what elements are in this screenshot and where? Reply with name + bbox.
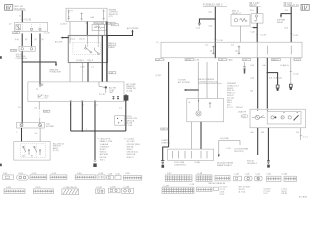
svg-text:C-42: C-42 (255, 174, 260, 176)
wire left rail down (21, 62, 23, 123)
svg-text:C-00: C-00 (196, 28, 200, 30)
svg-text:* 1 : ACD-2P GL: * 1 : ACD-2P GL (97, 138, 111, 141)
svg-text:C-105: C-105 (13, 32, 18, 34)
svg-text:C-105: C-105 (282, 174, 288, 176)
svg-text:(21-2): (21-2) (70, 39, 75, 41)
svg-text:C-60: C-60 (44, 111, 48, 113)
row2 small box C (214, 187, 219, 190)
wide connector box bottom (168, 149, 214, 167)
connector C-32 view (97, 173, 105, 179)
svg-text:20-3: 20-3 (284, 27, 288, 29)
row2 connector wide multi-pin A (162, 185, 194, 193)
wire branch 1 (15, 33, 22, 46)
fusible link box (66, 8, 107, 21)
svg-text:CONTROL-B: CONTROL-B (16, 58, 28, 60)
page edge mark left (0, 56, 2, 59)
svg-text:(5): (5) (25, 39, 28, 41)
connector labels under junction box (155, 58, 301, 61)
legend text column A (97, 138, 113, 162)
legend bottom col3 (263, 188, 271, 195)
svg-text:1 C-2: 1 C-2 (294, 59, 299, 61)
svg-text:1 C-32: 1 C-32 (293, 73, 299, 75)
svg-text:2-B: 2-B (261, 132, 265, 134)
svg-text:B7: B7 (31, 155, 33, 157)
condenser fan header (284, 3, 300, 7)
svg-text:AU2 W2B: AU2 W2B (100, 153, 109, 156)
svg-text:4-B: 4-B (269, 77, 273, 79)
svg-text:F7: F7 (71, 10, 73, 12)
svg-text:RELAY: RELAY (277, 21, 284, 24)
page edge mark left low (0, 164, 2, 167)
wire condenser fan down (284, 7, 298, 42)
connector C-39 view wide (208, 176, 230, 185)
svg-text:UNIT: UNIT (109, 92, 114, 94)
svg-text:B2: B2 (22, 155, 24, 157)
svg-text:(2): (2) (34, 39, 37, 41)
ECM box (28, 82, 124, 102)
row2 connector B-04 (96, 187, 105, 193)
svg-text:10A: 10A (90, 16, 94, 19)
note text mid (107, 43, 117, 49)
small connector box lower center (115, 116, 138, 127)
wire sensor 2 rail (290, 58, 299, 84)
wire below dedicated fuse (250, 23, 266, 42)
svg-text:(1-A(2)-1): (1-A(2)-1) (280, 64, 289, 67)
legend bottom col1 (220, 187, 228, 196)
resistor box mid (92, 24, 107, 30)
label under noise filter (16, 54, 28, 60)
svg-text:PANEL 7-COM: PANEL 7-COM (100, 140, 113, 143)
wires below ECM (18, 101, 127, 160)
row2 connector B-03 hatched (62, 187, 79, 195)
wire left dark rail (156, 62, 169, 147)
wires from relay box to ECM (70, 22, 116, 82)
magnet clutch relay box (231, 11, 250, 43)
svg-text:1 C-7: 1 C-7 (303, 137, 308, 139)
svg-text:1 A(2): 1 A(2) (227, 58, 232, 61)
svg-text:C-36: C-36 (125, 173, 130, 175)
svg-text:(C-35) 7: (C-35) 7 (60, 24, 67, 26)
wires into switch box (16, 128, 40, 142)
thermo sensor 2 (289, 84, 292, 90)
svg-text:1 C-30: 1 C-30 (217, 40, 223, 42)
svg-text:1-9: 1-9 (9, 23, 12, 25)
svg-text:4 C-32: 4 C-32 (260, 34, 266, 36)
pigtail component left (243, 62, 245, 74)
svg-text:4 C-30: 4 C-30 (24, 20, 32, 22)
svg-text:C-42: C-42 (250, 77, 254, 79)
svg-text:SYSTEM: SYSTEM (46, 126, 54, 128)
connector row right small 3 (255, 174, 263, 181)
svg-text:C-23: C-23 (190, 184, 195, 186)
svg-text:(2): (2) (235, 51, 238, 53)
row2 connector B-06 (122, 186, 134, 193)
bus under ECM (71, 130, 126, 132)
svg-text:FOR ACTIVE: FOR ACTIVE (50, 71, 62, 74)
wire fuse3 down double (99, 24, 105, 35)
svg-text:(21-08)-4: (21-08)-4 (76, 60, 84, 62)
connector C-30 view (75, 173, 95, 179)
svg-text:1 C-35: 1 C-35 (293, 35, 299, 37)
svg-text:21: 21 (36, 89, 38, 91)
wires below pressure box (250, 128, 307, 161)
wire fuse1 down (69, 22, 71, 36)
cooling fan bracket (217, 138, 249, 167)
svg-text:C-111: C-111 (11, 50, 16, 52)
svg-text:(2-4 B): (2-4 B) (126, 90, 132, 92)
label fusible link 1 (14, 6, 26, 10)
arrow to A/C system left (55, 37, 69, 44)
junction block box wide (156, 42, 302, 58)
svg-text:M: M (189, 102, 191, 104)
refrigerant label left of pressure box (236, 107, 248, 118)
svg-text:1: 1 (168, 129, 169, 131)
svg-text:C-40: C-40 (161, 129, 165, 131)
svg-text:FUSIBLE LINK 2: FUSIBLE LINK 2 (203, 3, 223, 7)
connector C-22 view (50, 173, 67, 179)
svg-text:C-40: C-40 (251, 32, 255, 34)
ground condenser (247, 161, 270, 168)
svg-text:4 72L: 4 72L (220, 194, 225, 196)
connector row C-105 (13, 32, 50, 35)
junction solid block on ECM right (124, 94, 129, 100)
wire bus to heater (22, 51, 61, 73)
wire branch 2 (25, 33, 32, 46)
wires compressor to connector (191, 122, 201, 149)
label C-38 mid (111, 24, 118, 26)
svg-text:MOMENT: MOMENT (107, 47, 116, 49)
connector C-05 view (17, 173, 29, 180)
wire dedicated fuse down (250, 7, 258, 14)
dedicated fuse box (251, 14, 263, 24)
relay box (A/C control relay) (9, 22, 48, 31)
connector C-36 view (123, 173, 141, 180)
svg-text:24-2: 24-2 (209, 12, 213, 14)
A/C relay big box (68, 36, 107, 63)
svg-text:(2-4B): (2-4B) (195, 162, 201, 164)
svg-text:*5 : 5-2 (A-T: *5 : 5-2 (A-T (124, 138, 135, 141)
label C-60 midleft (43, 110, 50, 113)
ECM inner dark components (112, 96, 119, 99)
svg-text:A/C-SYS: A/C-SYS (55, 41, 63, 44)
svg-text:5-4: 5-4 (35, 133, 38, 135)
svg-text:4 A(2)-1: 4 A(2)-1 (272, 58, 279, 61)
svg-text:C-36: C-36 (80, 67, 84, 69)
svg-text:C-38: C-38 (195, 59, 199, 61)
ECM terminal for wire (36, 84, 44, 91)
svg-text:C-41: C-41 (250, 65, 254, 67)
svg-text:4-A: 4-A (262, 64, 266, 67)
svg-text:4-B: 4-B (250, 132, 254, 134)
capacitor branch (196, 19, 216, 30)
svg-text:AC-7B1U4: AC-7B1U4 (299, 195, 307, 198)
svg-text:2-7U: 2-7U (263, 193, 268, 195)
svg-text:2 4: 2 4 (91, 67, 94, 69)
compressor box (187, 98, 224, 121)
wire pressure rail 1 (250, 58, 266, 109)
svg-text:C-02: C-02 (242, 116, 246, 118)
A/C switch box (14, 142, 50, 161)
svg-text:2-C 27: 2-C 27 (227, 107, 233, 109)
legend text column B (124, 138, 140, 159)
svg-text:29-1: 29-1 (285, 10, 289, 12)
connector row right wide 4 (266, 174, 281, 182)
svg-text:1-6 (2-4B): 1-6 (2-4B) (220, 138, 229, 140)
legend bottom col4 (281, 188, 287, 195)
svg-text:C-40: C-40 (234, 174, 239, 176)
svg-text:4(7-B): 4(7-B) (185, 59, 191, 61)
svg-text:2-6: 2-6 (34, 107, 37, 109)
svg-text:CONTROL: CONTROL (161, 142, 170, 144)
thermo sensor 1 (276, 85, 279, 91)
ACD diode box (38, 94, 50, 99)
spec list column (227, 83, 239, 109)
svg-text:CONTROL OF A-COM: CONTROL OF A-COM (199, 80, 218, 83)
wire from fusible link 1 down (19, 11, 32, 23)
svg-text:2-6: 2-6 (45, 98, 48, 100)
ECM inner resistor (99, 82, 116, 96)
label right of fusible link box (109, 9, 119, 18)
svg-text:7HE W2 D2AGR 4M: 7HE W2 D2AGR 4M (208, 182, 226, 185)
wires inside relay box (70, 36, 98, 45)
svg-text:C-39: C-39 (219, 59, 223, 61)
svg-text:C-05: C-05 (226, 148, 230, 150)
svg-text:2U ALT: 2U ALT (100, 148, 107, 151)
svg-text:(21-1): (21-1) (79, 39, 84, 41)
connector row right small 2 (245, 174, 253, 181)
label fusible link 2 header (203, 3, 227, 7)
svg-text:1: 1 (164, 59, 165, 61)
svg-text:C-60: C-60 (266, 174, 271, 176)
svg-text:C-41: C-41 (243, 59, 247, 61)
svg-text:4L 7C4L: 4L 7C4L (239, 191, 246, 193)
svg-text:1-1: 1-1 (119, 107, 122, 109)
connector C-10 view (30, 173, 47, 179)
wire to A/C system right arrow (106, 27, 139, 36)
svg-text:(1-A(2)-4): (1-A(2)-4) (274, 76, 283, 79)
label C-40 left (161, 128, 170, 131)
svg-text:1: 1 (16, 132, 17, 134)
svg-text:DUAL PR: DUAL PR (238, 111, 247, 114)
connector C-01 view (3, 173, 14, 179)
svg-text:(7-D) 1: (7-D) 1 (156, 75, 162, 77)
svg-text:3-GAUGE: 3-GAUGE (100, 143, 109, 146)
wire pressure rail 2 with branch (267, 58, 289, 109)
connector row right small 1 (234, 174, 242, 181)
wire fusible link 2 down (209, 7, 223, 59)
svg-text:(C2): (C2) (109, 16, 113, 18)
svg-text:C-35: C-35 (115, 173, 120, 175)
connector labels under fuse box (60, 22, 115, 26)
connector C-33 view (107, 173, 121, 179)
row2 connector wide multi-pin B (190, 184, 212, 191)
svg-text:SPARE W2GACT: SPARE W2GACT (217, 164, 233, 167)
svg-text:(C-12): (C-12) (53, 150, 59, 152)
icon page-ref 1 (5, 5, 13, 11)
connector row right wide 5 (282, 174, 297, 182)
blower motor box (17, 122, 54, 128)
svg-text:1 C-33: 1 C-33 (44, 32, 50, 34)
svg-text:RU2 4C: RU2 4C (236, 107, 243, 109)
svg-text:GROUND 2: GROUND 2 (247, 163, 257, 165)
to compressor arrow (178, 62, 217, 98)
legend bottom col2 (239, 187, 251, 194)
compressor control header (199, 79, 222, 83)
svg-text:2-C 4U: 2-C 4U (99, 94, 106, 96)
svg-text:A/C SYSTEM: A/C SYSTEM (127, 27, 139, 30)
svg-text:CONDITION 1: CONDITION 1 (174, 165, 186, 167)
pressure switch box (250, 109, 306, 128)
svg-text:24-3: 24-3 (209, 25, 213, 27)
row2 connector B-02 (33, 187, 53, 193)
svg-text:MOTOR 2): MOTOR 2) (234, 151, 244, 153)
svg-text:2(7)1-4: 2(7)1-4 (87, 60, 93, 62)
svg-text:D-2: D-2 (231, 44, 234, 46)
connector C-37 view large (165, 173, 192, 181)
svg-text:1-B: 1-B (296, 132, 300, 134)
connector C-38 view large (196, 173, 212, 181)
svg-text:C-40: C-40 (156, 59, 160, 61)
svg-text:C-33: C-33 (108, 173, 113, 175)
svg-text:2-4: 2-4 (95, 26, 98, 28)
svg-text:29-4: 29-4 (250, 10, 254, 12)
wire into ECM (39, 62, 41, 87)
wire branch 3 (34, 33, 44, 62)
svg-text:(1-4): (1-4) (15, 39, 19, 41)
ground left wire bend (161, 140, 170, 168)
A/C switch label (53, 142, 64, 152)
svg-text:C-41: C-41 (245, 174, 250, 176)
svg-text:A/C SYSTEM: A/C SYSTEM (178, 81, 190, 84)
svg-text:J-1: J-1 (156, 42, 159, 44)
svg-text:(2): (2) (210, 51, 213, 53)
icon page-ref 2 (301, 4, 309, 10)
svg-text:1-3: 1-3 (18, 107, 21, 109)
row2 connector B-01 (4, 187, 25, 193)
noise filter box (10, 46, 35, 52)
svg-text:1 C-60: 1 C-60 (126, 125, 132, 127)
row2 connector B-05 (108, 186, 120, 192)
svg-text:7U2 C: 7U2 C (100, 159, 106, 161)
ECM label text right (126, 83, 136, 93)
wire fuse2 down (dark) (86, 22, 88, 36)
svg-text:(1): (1) (41, 39, 44, 41)
svg-text:A: A (19, 14, 21, 17)
svg-text:2UW C2: 2UW C2 (127, 157, 134, 159)
dedicated fuse header (249, 3, 260, 7)
arrow branch left from condenser wire (277, 14, 291, 24)
ECM ground (93, 160, 96, 167)
svg-text:1-B: 1-B (250, 91, 254, 93)
svg-text:D-1: D-1 (205, 44, 208, 46)
svg-text:7W-7B: 7W-7B (281, 193, 287, 195)
